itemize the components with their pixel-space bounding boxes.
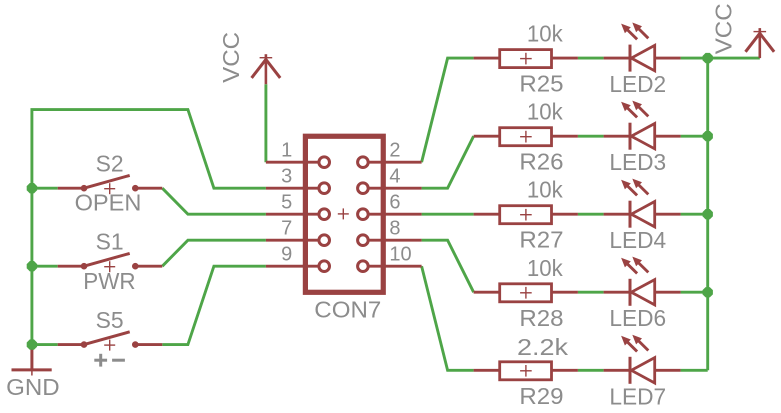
svg-text:10: 10 <box>389 244 411 266</box>
svg-text:10k: 10k <box>527 21 563 47</box>
svg-text:LED4: LED4 <box>609 227 666 253</box>
svg-text:VCC: VCC <box>218 32 244 83</box>
svg-text:VCC: VCC <box>711 3 737 54</box>
svg-text:R29: R29 <box>519 383 563 409</box>
svg-text:8: 8 <box>389 218 400 240</box>
svg-text:10k: 10k <box>527 99 563 125</box>
svg-text:S2: S2 <box>96 151 124 177</box>
svg-text:5: 5 <box>281 192 292 214</box>
svg-text:10k: 10k <box>527 255 563 281</box>
svg-text:4: 4 <box>389 166 400 188</box>
svg-text:PWR: PWR <box>83 268 135 294</box>
svg-text:CON7: CON7 <box>314 296 381 322</box>
svg-text:3: 3 <box>281 166 292 188</box>
svg-text:6: 6 <box>389 192 400 214</box>
svg-text:R27: R27 <box>519 227 563 253</box>
svg-text:OPEN: OPEN <box>75 190 142 216</box>
svg-text:R26: R26 <box>519 149 563 175</box>
svg-text:LED6: LED6 <box>609 305 666 331</box>
svg-text:LED2: LED2 <box>609 71 666 97</box>
svg-text:7: 7 <box>281 218 292 240</box>
svg-text:LED7: LED7 <box>609 383 666 409</box>
svg-text:S1: S1 <box>96 229 124 255</box>
svg-text:9: 9 <box>281 244 292 266</box>
svg-text:S5: S5 <box>96 307 124 333</box>
svg-text:10k: 10k <box>527 177 563 203</box>
svg-text:GND: GND <box>6 374 60 400</box>
svg-text:1: 1 <box>281 140 292 162</box>
svg-text:LED3: LED3 <box>609 149 666 175</box>
svg-text:R25: R25 <box>519 71 563 97</box>
svg-text:2.2k: 2.2k <box>517 334 568 360</box>
svg-text:2: 2 <box>389 140 400 162</box>
svg-text:R28: R28 <box>519 305 563 331</box>
